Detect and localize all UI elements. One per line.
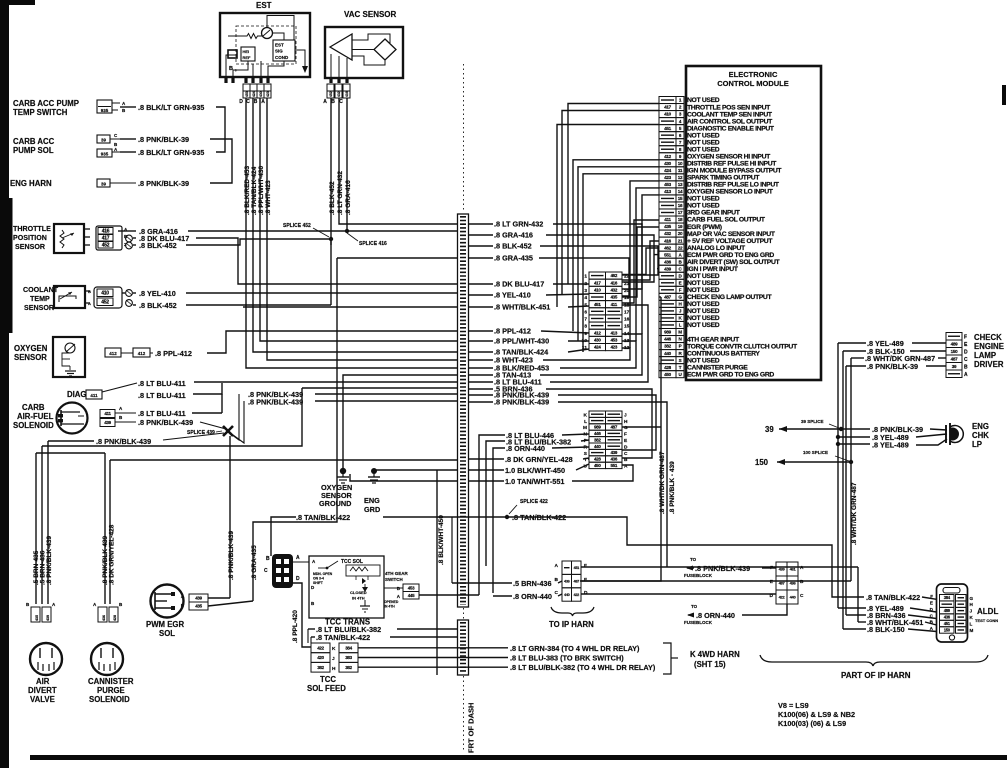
TO IP HARN connector	[562, 561, 572, 574]
wire LT GRN-384 run	[358, 647, 508, 649]
svg-text:382: 382	[664, 344, 672, 349]
wire TAN/BLK-422 mid	[383, 516, 505, 518]
ALDL connector	[937, 584, 968, 642]
wire ECM 435 link	[622, 227, 659, 297]
wire YEL-489 riser	[837, 343, 839, 608]
wire stubs through bar	[469, 223, 493, 225]
oxygen sensor box	[53, 337, 85, 377]
wire BLK/WHT-450 drop	[436, 470, 438, 675]
wire ECM 411 link	[622, 220, 659, 303]
VAC sensor box	[325, 27, 403, 78]
svg-text:487: 487	[574, 579, 580, 583]
svg-text:B: B	[229, 66, 233, 72]
svg-text:ELECTRONIC: ELECTRONIC	[729, 70, 778, 79]
svg-text:A: A	[261, 99, 265, 105]
wire PNK/BLK-439 fuseblock b	[762, 567, 776, 569]
svg-text:489: 489	[951, 341, 959, 346]
splice 422 dot	[505, 515, 509, 519]
wire WHT/BLK-451 aldl b	[925, 622, 937, 625]
svg-text:.8 DK GRN/YEL-428: .8 DK GRN/YEL-428	[109, 524, 116, 585]
svg-text:436: 436	[944, 615, 951, 620]
wire DK GRN/YEL-428 to C200	[588, 458, 589, 460]
wire PNK/BLK-439 fuseblock	[687, 567, 694, 569]
wire 39 arrow	[779, 428, 846, 430]
svg-text:424: 424	[252, 91, 256, 97]
svg-text:462: 462	[664, 245, 672, 250]
svg-text:CONTINUOUS BATTERY: CONTINUOUS BATTERY	[687, 350, 760, 357]
svg-text:21: 21	[624, 281, 630, 287]
svg-text:CONTROL MODULE: CONTROL MODULE	[717, 79, 789, 88]
svg-text:450: 450	[594, 463, 601, 468]
svg-text:CHECK ENG LAMP OUTPUT: CHECK ENG LAMP OUTPUT	[687, 294, 772, 301]
svg-text:OPENED: OPENED	[384, 600, 399, 604]
svg-text:450: 450	[664, 372, 672, 377]
svg-text:.8 WHT/DK GRN-487: .8 WHT/DK GRN-487	[659, 451, 666, 514]
svg-text:E: E	[930, 600, 933, 605]
svg-text:412: 412	[109, 351, 117, 356]
svg-text:2: 2	[584, 281, 587, 287]
wire GRA-416 lead	[122, 230, 136, 232]
svg-text:436: 436	[610, 457, 617, 462]
wire BLK/LT GRN-935 link	[216, 107, 225, 152]
svg-text:G: G	[624, 425, 628, 431]
svg-text:16: 16	[624, 317, 630, 323]
svg-text:NOT USED: NOT USED	[687, 196, 720, 203]
svg-text:.8 BLK-452: .8 BLK-452	[329, 181, 336, 215]
svg-text:H: H	[332, 666, 336, 672]
svg-text:H: H	[624, 419, 628, 425]
wire BLK-150 lampdrv	[843, 350, 866, 352]
svg-text:39: 39	[952, 364, 957, 369]
svg-text:A: A	[323, 99, 327, 105]
svg-text:EST: EST	[275, 43, 284, 48]
svg-text:SOLENOID: SOLENOID	[13, 421, 54, 430]
wire ECM 451 link	[557, 125, 659, 308]
scan artifact left black bar	[0, 0, 9, 768]
svg-text:13: 13	[624, 338, 630, 344]
svg-text:4TH GEAR: 4TH GEAR	[385, 571, 409, 576]
EST module box	[220, 13, 310, 77]
svg-text:NOT USED: NOT USED	[687, 203, 720, 210]
wire PNK/BLK-439 riser a	[231, 394, 239, 440]
wire BLK-452 to C100	[540, 246, 658, 275]
splice 416 dot	[345, 229, 349, 233]
wire PPL-412 to C100	[541, 331, 589, 333]
svg-text:150: 150	[944, 627, 951, 632]
svg-text:ANALOG LO INPUT: ANALOG LO INPUT	[687, 245, 746, 252]
svg-text:AIR: AIR	[36, 677, 50, 686]
svg-text:10: 10	[678, 161, 683, 166]
svg-text:430: 430	[259, 91, 263, 97]
wire GRA-435 to C100	[539, 258, 629, 296]
wire TAN-413 to C100	[540, 334, 642, 375]
svg-text:F: F	[624, 432, 627, 438]
svg-text:B: B	[331, 99, 335, 105]
wire PNK/BLK-39 link	[210, 139, 232, 183]
wire PNK/BLK-39 lampdrv b	[926, 365, 946, 367]
svg-text:.8 LT BLU/BLK-382 (TO 4 WHL: .8 LT BLU/BLK-382 (TO 4 WHL DR RELAY)	[510, 663, 656, 672]
wire ECM 416 link	[622, 241, 659, 280]
svg-text:MAP OR VAC SENSOR INPUT: MAP OR VAC SENSOR INPUT	[687, 231, 776, 238]
wire TAN/BLK-424 column	[253, 98, 457, 352]
svg-text:.8 WHT-423: .8 WHT-423	[265, 180, 272, 215]
connector 935 temp switch	[97, 100, 112, 113]
svg-text:423: 423	[610, 345, 617, 350]
svg-text:3: 3	[584, 288, 587, 294]
wire blob to tcc box	[293, 561, 309, 563]
svg-text:19: 19	[624, 295, 630, 301]
svg-text:MDN. OPEN: MDN. OPEN	[313, 572, 333, 576]
svg-text:NOT USED: NOT USED	[687, 146, 720, 153]
svg-text:411: 411	[90, 393, 98, 398]
svg-text:440: 440	[594, 444, 601, 449]
svg-text:LAMP: LAMP	[974, 351, 996, 360]
svg-text:.8 LT BLU-411: .8 LT BLU-411	[138, 409, 186, 418]
wire ECM 487 link	[659, 296, 661, 298]
svg-text:S: S	[679, 358, 682, 363]
svg-text:PUMP SOL: PUMP SOL	[13, 146, 54, 155]
svg-text:DIVERT: DIVERT	[28, 686, 57, 695]
wire PNK/BLK-39 upper	[120, 138, 136, 140]
svg-text:150: 150	[755, 458, 769, 467]
wire IP HARN D out	[581, 593, 776, 595]
svg-text:383: 383	[345, 655, 352, 660]
wire PNK/BLK-439 to fuseblock riser	[558, 402, 667, 567]
splice 100 dot	[849, 460, 853, 464]
wire PNK/BLK-39 lampdrv	[846, 365, 866, 367]
svg-text:439: 439	[195, 596, 202, 601]
svg-text:TO: TO	[691, 604, 698, 609]
svg-text:D: D	[624, 444, 628, 450]
svg-text:452: 452	[329, 91, 333, 97]
wire GRA-416 to C100	[546, 235, 654, 282]
wire ORN-440 fuseblock	[688, 614, 694, 616]
svg-text:CHECK: CHECK	[974, 333, 1002, 342]
O2 connector cell 412 a	[105, 348, 121, 357]
svg-text:C: C	[555, 590, 559, 596]
wire 150 arrow	[777, 461, 851, 463]
svg-text:GRD: GRD	[364, 505, 380, 514]
wire BRN-436 crossover	[42, 388, 302, 446]
wire ECM 551 link	[654, 254, 659, 256]
wire DK GRN/YEL-428 stub	[469, 458, 504, 460]
wire WHT/BLK-451 run left	[243, 306, 457, 308]
svg-text:17: 17	[678, 210, 683, 215]
svg-text:423: 423	[266, 91, 270, 97]
svg-text:PART OF IP HARN: PART OF IP HARN	[841, 671, 911, 680]
wire ECM 439 link	[657, 268, 659, 270]
svg-text:CANNISTER: CANNISTER	[88, 677, 134, 686]
svg-text:OXYGEN SENSOR LO INPUT: OXYGEN SENSOR LO INPUT	[687, 189, 774, 196]
svg-text:430: 430	[664, 161, 672, 166]
svg-text:K100(03) (06) & LS9: K100(03) (06) & LS9	[778, 719, 846, 728]
tcc ground	[364, 600, 366, 606]
svg-text:39: 39	[101, 138, 107, 143]
wire LT GRN-432 column	[339, 98, 457, 224]
svg-text:411: 411	[611, 302, 618, 307]
svg-text:ENG: ENG	[364, 496, 380, 505]
svg-text:B: B	[800, 579, 804, 585]
wire WHT/BLK-451 riser right	[857, 567, 859, 622]
TPS twisted pair symbol	[126, 235, 133, 242]
wire LT BLU-446 to C200	[562, 434, 589, 435]
svg-text:NOT USED: NOT USED	[687, 280, 720, 287]
wire TAN/BLK-422 main	[271, 517, 296, 556]
wire BLK-452 column continuation	[330, 239, 332, 305]
wire BRN-436 mid	[452, 582, 512, 584]
wire LT BLU-411 third link	[192, 412, 222, 414]
svg-text:.8 GRA-416: .8 GRA-416	[494, 231, 533, 240]
svg-text:.8 ORN-440: .8 ORN-440	[506, 444, 545, 453]
svg-text:CARB FUEL SOL OUTPUT: CARB FUEL SOL OUTPUT	[687, 217, 766, 224]
wire YEL-489 aldl b	[910, 608, 937, 612]
wire PNK/BLK-39 lamp a	[846, 428, 870, 430]
wire BRN-436 run right	[302, 387, 457, 389]
svg-text:551: 551	[610, 463, 617, 468]
VAC sensor diamond	[374, 39, 396, 60]
svg-text:440: 440	[564, 593, 570, 597]
wire WHT/DK GRN-487 lampdrv b	[938, 357, 946, 359]
svg-text:.8 PNK/BLK-39: .8 PNK/BLK-39	[867, 362, 918, 371]
wire DIAG diagonal	[102, 383, 137, 392]
svg-text:M: M	[678, 330, 682, 335]
wire TAN/WHT-551 to C200	[572, 465, 633, 481]
svg-text:TCC: TCC	[320, 675, 336, 684]
svg-text:+ 5V REF VOLTAGE OUTPUT: + 5V REF VOLTAGE OUTPUT	[687, 238, 773, 245]
svg-text:B: B	[88, 289, 91, 294]
wire WHT-423 column	[267, 98, 457, 360]
svg-text:G: G	[970, 596, 974, 601]
svg-text:K: K	[584, 412, 588, 418]
wire ECM 424 link	[583, 174, 659, 352]
svg-text:432: 432	[664, 231, 672, 236]
svg-text:IGN I PWR INPUT: IGN I PWR INPUT	[687, 266, 739, 273]
connector C100 cells	[589, 272, 606, 279]
svg-text:.8 GRA-435: .8 GRA-435	[251, 545, 258, 580]
svg-text:.8 PNK/BLK-439: .8 PNK/BLK-439	[96, 437, 151, 446]
svg-text:SOLENOID: SOLENOID	[89, 695, 130, 704]
svg-text:439: 439	[610, 450, 617, 455]
svg-text:.5 BRN-436: .5 BRN-436	[513, 579, 552, 588]
svg-text:935: 935	[101, 108, 109, 113]
svg-text:935: 935	[101, 152, 109, 157]
svg-text:19: 19	[678, 224, 683, 229]
svg-text:.8 DK BLU-417: .8 DK BLU-417	[494, 280, 544, 289]
DIAG connector cell 411	[86, 390, 102, 399]
svg-text:436: 436	[102, 615, 106, 621]
svg-text:FUSEBLOCK: FUSEBLOCK	[684, 573, 713, 578]
wire BLK-452 run tps	[186, 239, 331, 245]
wire LT BLU/BLK-382 left riser	[486, 441, 505, 566]
svg-text:14: 14	[624, 331, 630, 337]
svg-text:.8 TAN/BLK-422: .8 TAN/BLK-422	[866, 593, 920, 602]
svg-text:432: 432	[337, 91, 341, 97]
svg-text:.8 PNK/BLK-439: .8 PNK/BLK-439	[228, 530, 235, 580]
svg-text:436: 436	[664, 259, 672, 264]
svg-text:.8 PNK/BLK-439: .8 PNK/BLK-439	[138, 418, 193, 427]
4th gear cells	[403, 584, 419, 592]
wire LT BLU/BLK-382 run	[358, 666, 508, 668]
svg-text:451: 451	[574, 566, 580, 570]
svg-text:VALVE: VALVE	[30, 695, 55, 704]
cannister cells	[98, 607, 107, 622]
svg-text:412: 412	[594, 330, 601, 335]
wire BLK/RED-453 to C100	[560, 341, 636, 368]
svg-text:428: 428	[664, 365, 672, 370]
svg-text:.8 PPL-412: .8 PPL-412	[494, 327, 531, 336]
VAC sensor triangle	[330, 34, 352, 60]
wire PNK/BLK-439 to C200	[558, 395, 656, 450]
wire LT BLU-446 left riser	[479, 435, 505, 595]
svg-text:384: 384	[944, 595, 951, 600]
svg-text:445: 445	[408, 593, 415, 598]
svg-text:D: D	[584, 590, 588, 596]
svg-text:TO IP HARN: TO IP HARN	[549, 620, 594, 629]
svg-text:AIR CONTROL SOL OUTPUT: AIR CONTROL SOL OUTPUT	[687, 118, 773, 125]
svg-text:AIR DIVERT (SW) SOL OUTPUT: AIR DIVERT (SW) SOL OUTPUT	[687, 259, 781, 266]
svg-text:436: 436	[564, 579, 570, 583]
svg-text:.8 BLK/LT GRN-935: .8 BLK/LT GRN-935	[138, 103, 204, 112]
svg-text:ENG: ENG	[972, 422, 989, 431]
svg-text:SPLICE 416: SPLICE 416	[359, 241, 387, 247]
svg-text:IN 4TH: IN 4TH	[352, 596, 365, 601]
svg-text:.8 WHT/BLK-451: .8 WHT/BLK-451	[494, 303, 550, 312]
wire YEL-489 lamp1 b	[916, 434, 947, 437]
svg-text:TEST CONN: TEST CONN	[975, 618, 998, 623]
svg-text:B: B	[254, 99, 258, 105]
svg-text:.8 LT BLU-383 (TO BRK SWITCH: .8 LT BLU-383 (TO BRK SWITCH)	[510, 654, 624, 663]
svg-text:M: M	[970, 628, 974, 633]
4wd connector blob	[272, 554, 293, 588]
wire BLK-150 riser	[842, 351, 844, 629]
wire BLK/LT GRN-935 lower lead	[120, 151, 136, 153]
svg-text:439: 439	[104, 420, 111, 425]
svg-text:LP: LP	[972, 440, 982, 449]
wire BLK-452 column	[330, 98, 332, 245]
resistor inside EST	[244, 34, 262, 39]
svg-text:NOT USED: NOT USED	[687, 132, 720, 139]
svg-text:452: 452	[101, 300, 109, 306]
svg-text:SHIFT: SHIFT	[313, 581, 324, 585]
wire YEL-489 lampdrv	[838, 342, 866, 344]
EST connector pins	[224, 77, 227, 83]
wire ECM 423 link	[630, 181, 659, 348]
svg-text:THROTTLE: THROTTLE	[13, 225, 51, 233]
wire BLK/WHT-450 left	[374, 469, 457, 471]
svg-text:.8 BLK-150: .8 BLK-150	[867, 625, 905, 634]
scan artifact right edge mark	[1002, 85, 1006, 105]
svg-text:435: 435	[35, 615, 39, 621]
wire WHT/DK GRN-487 lampdrv	[851, 357, 864, 359]
svg-text:COOLANT TEMP SEN INPUT: COOLANT TEMP SEN INPUT	[687, 111, 773, 118]
svg-text:CANNISTER PURGE: CANNISTER PURGE	[687, 364, 748, 371]
wire BLK-150 lampdrv b	[910, 350, 946, 352]
svg-text:435: 435	[610, 295, 617, 300]
tcc arrow down	[364, 584, 366, 590]
svg-text:AIR-FUEL: AIR-FUEL	[17, 412, 54, 421]
wire GRA-435 egr jog	[208, 601, 253, 606]
air divert valve circle	[30, 643, 62, 675]
wire ECM 410 link	[562, 111, 659, 296]
svg-text:.8 LT GRN-432: .8 LT GRN-432	[337, 171, 344, 215]
svg-text:439: 439	[664, 266, 672, 271]
check engine lamp driver connector	[946, 333, 962, 341]
svg-text:.8 TAN/BLK-424: .8 TAN/BLK-424	[251, 166, 258, 215]
svg-text:.8 PNK/BLK-439: .8 PNK/BLK-439	[248, 398, 303, 407]
svg-text:21: 21	[678, 238, 683, 243]
wire YEL-410 run	[186, 292, 457, 294]
transistor inside EST	[262, 28, 273, 39]
wire BLK/WHT-450 to C200	[576, 464, 589, 470]
svg-text:OXYGEN SENSOR HI INPUT: OXYGEN SENSOR HI INPUT	[687, 153, 771, 160]
wire PPL-420	[293, 583, 311, 647]
svg-text:.8 WHT/DK GRN-487: .8 WHT/DK GRN-487	[851, 482, 858, 545]
svg-text:4: 4	[584, 295, 587, 301]
svg-text:487: 487	[610, 425, 617, 430]
svg-text:PWM EGR: PWM EGR	[146, 620, 184, 629]
svg-text:3RD GEAR INPUT: 3RD GEAR INPUT	[687, 210, 741, 217]
wire LT BLU/BLK-382 low right	[397, 628, 457, 630]
wire DK BLU-417 run	[196, 238, 457, 284]
wire BRN-435 crossover	[36, 452, 105, 454]
svg-text:DIAGNOSTIC ENABLE INPUT: DIAGNOSTIC ENABLE INPUT	[687, 125, 775, 132]
wire LT BLU-411 to C100	[550, 305, 648, 382]
wire LT GRN-432 to C100	[553, 224, 642, 289]
svg-text:K: K	[332, 646, 336, 652]
wire DK BLU-417 lead	[133, 237, 136, 239]
wire ORN-440 to C200	[552, 447, 589, 448]
VAC sensor internal wires	[352, 34, 390, 43]
svg-text:C: C	[624, 451, 628, 457]
svg-text:451: 451	[944, 621, 951, 626]
pwm egr sol circle	[151, 585, 184, 618]
svg-text:ECM PWR GRD TO ENG GRD: ECM PWR GRD TO ENG GRD	[687, 371, 774, 378]
svg-text:SOL: SOL	[159, 629, 175, 638]
svg-text:A: A	[296, 555, 300, 561]
wire PPL/WHT-430 to C100	[568, 340, 589, 342]
svg-text:F: F	[964, 334, 967, 340]
svg-text:EST: EST	[256, 1, 272, 10]
svg-text:13: 13	[678, 182, 683, 187]
wire BLK-452 lead	[133, 244, 136, 246]
wire YEL-489 lamp2 b	[916, 439, 947, 445]
wire TAN-413 left	[343, 375, 457, 470]
svg-text:.8 PNK/BLK-439: .8 PNK/BLK-439	[695, 564, 750, 573]
svg-text:D: D	[296, 576, 300, 582]
svg-text:410: 410	[594, 287, 601, 292]
svg-text:39 SPLICE: 39 SPLICE	[801, 419, 824, 424]
svg-text:DIAG: DIAG	[67, 390, 87, 399]
svg-text:C: C	[339, 99, 343, 105]
svg-text:.8 YEL-410: .8 YEL-410	[494, 291, 531, 300]
svg-text:416: 416	[345, 91, 349, 97]
svg-text:384: 384	[345, 645, 352, 650]
svg-text:VAC SENSOR: VAC SENSOR	[344, 10, 397, 19]
svg-text:382: 382	[345, 665, 352, 670]
svg-text:A: A	[800, 565, 804, 571]
svg-text:SENSOR: SENSOR	[15, 243, 45, 251]
svg-text:.8 PNK/BLK-439: .8 PNK/BLK-439	[46, 535, 53, 585]
svg-text:POSITION: POSITION	[13, 234, 47, 242]
wire IP HARN E out	[581, 580, 851, 582]
frt of dash dashed line gap	[463, 608, 465, 619]
wire ECM 453 link	[636, 188, 659, 341]
svg-text:P: P	[679, 344, 682, 349]
svg-text:B: B	[266, 556, 270, 562]
svg-text:DRIVER: DRIVER	[974, 360, 1004, 369]
wire YEL-489 lampdrv b	[912, 342, 946, 344]
svg-text:417: 417	[664, 105, 672, 110]
